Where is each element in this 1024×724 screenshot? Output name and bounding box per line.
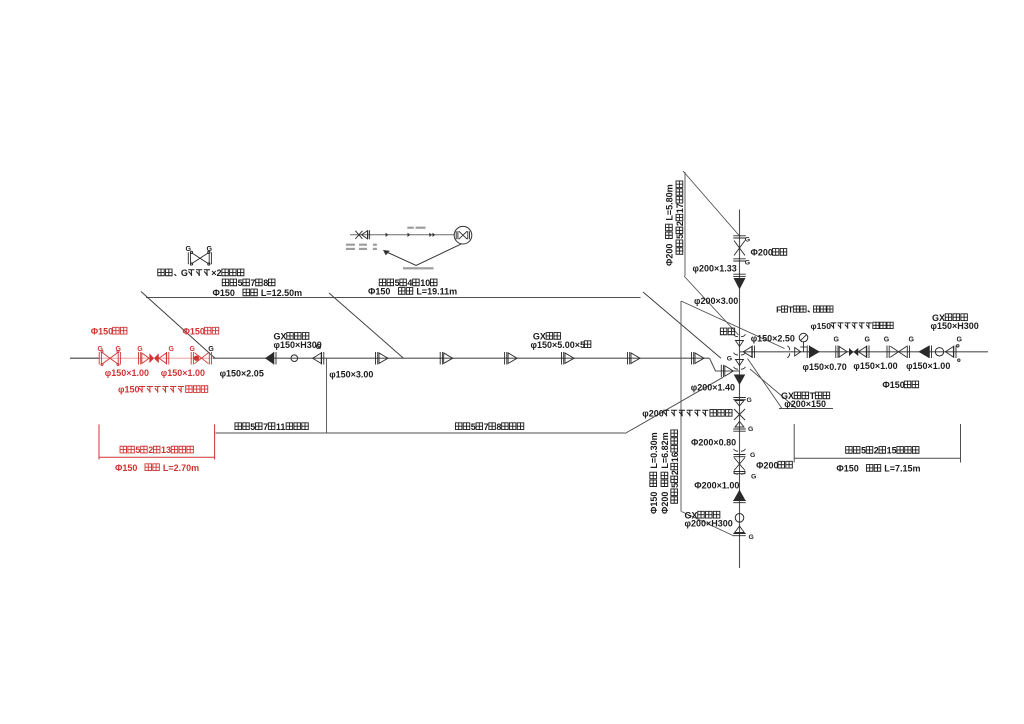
- fitting red joint 1 (継輪): [99, 352, 101, 365]
- label Φ150撤去L=0.30m rotated: [649, 432, 659, 514]
- svg-text:Φ200: Φ200: [751, 248, 773, 258]
- wire inset arrow leader: [385, 244, 462, 266]
- svg-text:φ150×5.00×5: φ150×5.00×5: [531, 340, 586, 350]
- svg-text:φ150×1.00: φ150×1.00: [105, 368, 149, 378]
- pipe vertical Φ200 upper: [739, 210, 741, 372]
- svg-text:Φ150: Φ150: [882, 380, 904, 390]
- fitting joint (X with flanges) right: [887, 346, 889, 359]
- svg-text:L=7.15m: L=7.15m: [882, 464, 921, 474]
- label GX直管: [533, 332, 561, 342]
- svg-text:G: G: [749, 534, 754, 541]
- label Φ150継輪 red 2: [183, 326, 219, 336]
- valve inset left: [355, 231, 362, 239]
- label GX二受T字管: [781, 391, 830, 401]
- svg-text:16: 16: [670, 452, 680, 462]
- label inset tiny texts: [407, 227, 414, 229]
- svg-text:L=5.80m: L=5.80m: [665, 184, 675, 223]
- svg-text:L=2.70m: L=2.70m: [160, 463, 199, 473]
- svg-text:φ150: φ150: [811, 321, 832, 331]
- label φ150×H300 right: [931, 321, 979, 331]
- label φ150ソフトシール仕切弁 red: [118, 385, 208, 395]
- node circle joint right: [935, 348, 943, 356]
- label Φ200×0.80: [691, 437, 736, 447]
- fitting socket 4 (flange + spigot right): [562, 352, 564, 365]
- svg-text:G: G: [207, 244, 213, 253]
- svg-text:5: 5: [675, 234, 685, 239]
- svg-text:13: 13: [161, 445, 171, 455]
- wire diagonal leader middle: [329, 293, 404, 358]
- label φ150×1.00 right 1: [853, 361, 897, 371]
- label Φ150撤去L=2.70m red: [115, 463, 199, 473]
- svg-text:Φ200: Φ200: [660, 489, 670, 514]
- svg-text:G: G: [208, 344, 214, 353]
- wire red bracket left tick: [98, 424, 100, 459]
- svg-text:G: G: [750, 452, 755, 459]
- svg-text:φ200×1.33: φ200×1.33: [693, 264, 737, 274]
- svg-text:φ150×1.00: φ150×1.00: [906, 361, 950, 371]
- label φ150×1.00 red 2: [161, 368, 205, 378]
- svg-text:G: G: [957, 336, 963, 343]
- wire rotated dim diagonal lower: [684, 276, 739, 335]
- label Φ200×1.00: [694, 481, 739, 491]
- svg-text:φ200: φ200: [642, 408, 663, 418]
- fitting socket 2 (flange + spigot right): [440, 352, 442, 365]
- svg-text:G: G: [745, 260, 750, 267]
- label φ150×1.00 red 1: [105, 368, 149, 378]
- label Φ150継輪 red 1: [91, 326, 127, 336]
- valve 補修弁 (circle on stem): [803, 342, 805, 352]
- svg-text:F: F: [776, 304, 781, 314]
- svg-text:Φ150: Φ150: [91, 326, 113, 336]
- wire leader to GX乙字管 bottom: [682, 512, 735, 537]
- svg-text:φ200×H300: φ200×H300: [685, 519, 733, 529]
- svg-text:Φ150: Φ150: [115, 463, 140, 473]
- svg-text:5: 5: [250, 422, 255, 432]
- label φ200×3.00: [694, 296, 738, 306]
- svg-text:5: 5: [861, 446, 866, 456]
- label Φ150継輪 right: [882, 380, 918, 390]
- svg-text:G: G: [190, 346, 196, 353]
- wire section divider vertical: [680, 301, 682, 512]
- pipe main right branch Φ150: [740, 351, 989, 353]
- fitting socket up + flange bottom: [735, 526, 745, 533]
- label Φ150撤去L=7.15m: [836, 464, 920, 474]
- svg-text:G: G: [751, 474, 756, 481]
- cap filled up: [735, 491, 745, 500]
- svg-text:4: 4: [407, 278, 412, 288]
- label Φ150撤去L=12.50m: [213, 288, 303, 298]
- label GX乙字管 right: [932, 313, 967, 323]
- svg-text:5: 5: [135, 445, 140, 455]
- label 継輪、Gリンク×2再利用: [158, 268, 244, 278]
- svg-text:φ150×H300: φ150×H300: [931, 321, 979, 331]
- wire leader tee 1: [748, 359, 783, 409]
- svg-text:G: G: [884, 336, 890, 343]
- label GX乙字管 1: [274, 332, 309, 342]
- svg-text:G: G: [137, 346, 143, 353]
- label φ150×3.00: [329, 370, 373, 380]
- label φ200×H300 bottom: [685, 519, 733, 529]
- svg-text:7: 7: [263, 422, 268, 432]
- svg-text:5: 5: [471, 422, 476, 432]
- fitting socket on jog: [721, 365, 723, 378]
- svg-text:G: G: [834, 336, 840, 343]
- label Φ150撤去L=19.11m: [368, 287, 457, 297]
- label 令和5年2月16日施工 rotated: [670, 430, 680, 503]
- svg-text:2: 2: [670, 470, 680, 475]
- label φ150×H300 1: [274, 340, 322, 350]
- cap filled right: [807, 346, 809, 359]
- svg-text:Φ150: Φ150: [368, 287, 393, 297]
- label 令和5年7月11日施工: [235, 422, 308, 432]
- svg-text:2: 2: [148, 445, 153, 455]
- wire rotated dim diagonal upper: [683, 171, 740, 237]
- fitting socket left-facing right-end: [945, 347, 953, 358]
- label 令和5年7月8日施工: [455, 422, 523, 432]
- label Φ200継輪 bottom: [756, 460, 792, 470]
- wire reference line (removal sections): [146, 297, 641, 299]
- svg-text:φ150×H300: φ150×H300: [274, 340, 322, 350]
- label 令和5年2月17日施工 rotated: [675, 181, 685, 254]
- valve Φ200 gate top (X with flanges): [733, 236, 746, 238]
- fitting socket left-facing at tee right: [743, 347, 752, 358]
- pipe offset jog at tee: [710, 358, 740, 371]
- svg-text:φ150×2.05: φ150×2.05: [220, 369, 264, 379]
- svg-text:φ150×1.00: φ150×1.00: [161, 368, 205, 378]
- svg-text:G: G: [116, 346, 122, 353]
- cap filled down + flange: [733, 274, 746, 276]
- label 令和5年7月8日: [222, 278, 275, 288]
- fitting reuse joint (X with flanges): [188, 252, 190, 264]
- svg-text:5: 5: [670, 483, 680, 488]
- fitting socket 6 (flange + spigot right): [692, 352, 694, 365]
- fitting socket left-facing with flange: [313, 353, 322, 364]
- node inset ticks: [386, 233, 389, 237]
- svg-text:17: 17: [675, 203, 685, 213]
- label φ200×1.40: [691, 383, 735, 393]
- label 平神: [720, 328, 734, 335]
- label φ150×2.05: [220, 369, 264, 379]
- svg-text:G: G: [98, 346, 104, 353]
- svg-text:L=6.82m: L=6.82m: [660, 432, 670, 471]
- label φ200ソフトシール仕切弁: [642, 408, 732, 418]
- svg-text:G: G: [748, 426, 753, 433]
- svg-text:φ150: φ150: [118, 385, 139, 395]
- label 令和5年2月13日施工 red: [120, 445, 193, 455]
- svg-text:G: G: [747, 397, 752, 404]
- fitting tee bell with G: [734, 353, 746, 355]
- svg-text:Φ150: Φ150: [836, 464, 861, 474]
- wire dimension line 7/11 7/8: [216, 432, 626, 434]
- fitting socket 3 (flange + spigot right): [505, 352, 507, 365]
- wire section divider drop: [326, 358, 328, 433]
- svg-text:G: G: [909, 336, 915, 343]
- svg-text:G: G: [727, 355, 732, 362]
- label φ150ソフトシール仕切弁 right: [811, 321, 894, 331]
- svg-text:8: 8: [263, 278, 268, 288]
- fitting socket 5 (flange + spigot right): [628, 352, 630, 365]
- cap filled left + flange: [266, 353, 274, 364]
- label GX乙字管 bottom: [685, 510, 720, 520]
- label Φ200継輪 top: [751, 248, 787, 258]
- label φ150×2.50: [751, 334, 795, 344]
- fitting socket bell top of tee: [734, 334, 746, 336]
- wire inset pipeline: [350, 234, 455, 236]
- svg-text:L=0.30m: L=0.30m: [649, 432, 659, 471]
- label φ200×1.33: [693, 264, 737, 274]
- pipe vertical Φ200 lower: [739, 371, 741, 568]
- wire dimension leader to tee: [625, 377, 723, 433]
- svg-text:2: 2: [874, 446, 879, 456]
- wire leader to F-tee fitting: [681, 301, 785, 349]
- svg-text:5: 5: [395, 278, 400, 288]
- wire right bracket left tick: [793, 424, 795, 463]
- label φ200×150: [784, 399, 826, 409]
- svg-text:G: G: [181, 268, 188, 278]
- wire label underline: [779, 408, 833, 410]
- wire right bracket right tick: [960, 424, 962, 463]
- node circle joint vertical: [735, 514, 744, 523]
- svg-text:φ150×1.00: φ150×1.00: [853, 361, 897, 371]
- node circle joint: [291, 355, 298, 362]
- svg-text:φ200×3.00: φ200×3.00: [694, 296, 738, 306]
- label 令和5年4月10日: [379, 278, 437, 288]
- svg-text:Φ200×1.00: Φ200×1.00: [694, 481, 739, 491]
- svg-text:7: 7: [250, 278, 255, 288]
- wire diagonal leader right: [643, 292, 721, 358]
- fitting socket 1 (flange + spigot right): [376, 352, 378, 365]
- fitting socket bell left branch: [734, 367, 746, 369]
- svg-text:Φ150: Φ150: [213, 288, 238, 298]
- valve φ150 soft-seal right (flange+triangles): [836, 346, 838, 359]
- label Φ200撤去L=6.82m rotated: [660, 432, 670, 514]
- svg-text:Φ150: Φ150: [183, 326, 205, 336]
- svg-text:2: 2: [675, 221, 685, 226]
- fitting F付T字管 bell + spigot: [787, 346, 789, 358]
- svg-text:Φ200×0.80: Φ200×0.80: [691, 437, 736, 447]
- wire red bracket right tick: [214, 424, 216, 459]
- wire red bracket line: [99, 456, 215, 458]
- valve φ200 soft-seal (sockets + X): [733, 398, 746, 400]
- svg-text:11: 11: [276, 422, 286, 432]
- svg-text:φ150×0.70: φ150×0.70: [803, 362, 847, 372]
- label φ150×0.70: [803, 362, 847, 372]
- pipe removed red section: [99, 357, 213, 359]
- svg-text:Φ200: Φ200: [756, 460, 778, 470]
- svg-text:L=12.50m: L=12.50m: [258, 288, 302, 298]
- svg-text:G: G: [186, 244, 192, 253]
- label φ150×1.00 right 2: [906, 361, 950, 371]
- valve red soft-seal gate 1: [139, 352, 141, 365]
- wire leader tee 2: [750, 369, 797, 409]
- svg-text:φ200×150: φ200×150: [784, 399, 826, 409]
- svg-text:G: G: [745, 237, 750, 244]
- svg-text:Φ150: Φ150: [649, 489, 659, 514]
- label F付T字管補修弁: [776, 304, 833, 314]
- svg-text:φ150×2.50: φ150×2.50: [751, 334, 795, 344]
- svg-text:G: G: [169, 346, 175, 353]
- pipe main left stub: [70, 357, 99, 359]
- valve inset circled: [454, 226, 472, 244]
- fitting Φ200継輪 (bells + X): [734, 449, 746, 451]
- svg-text:Φ200: Φ200: [665, 241, 675, 266]
- wire rotated dim line top: [684, 172, 686, 276]
- svg-text:φ150×3.00: φ150×3.00: [329, 370, 373, 380]
- wire diagonal leader left: [141, 292, 215, 359]
- label 令和5年2月15日施工: [846, 446, 919, 456]
- svg-text:8: 8: [496, 422, 501, 432]
- pipe main Φ150: [213, 357, 710, 359]
- label Φ200撤去L=5.80m rotated: [665, 184, 675, 266]
- cap filled left right-end: [919, 346, 929, 357]
- label φ150×5.00×5本: [531, 340, 591, 350]
- svg-text:5: 5: [238, 278, 243, 288]
- svg-text:φ200×1.40: φ200×1.40: [691, 383, 735, 393]
- svg-text:7: 7: [484, 422, 489, 432]
- svg-text:G: G: [865, 336, 871, 343]
- cap filled down below tee: [735, 375, 745, 384]
- svg-text:15: 15: [887, 446, 897, 456]
- svg-text:L=19.11m: L=19.11m: [414, 287, 457, 297]
- wire right bracket line: [794, 457, 960, 459]
- svg-text:×2: ×2: [211, 268, 221, 278]
- fitting red joint 2 (継輪): [191, 352, 193, 365]
